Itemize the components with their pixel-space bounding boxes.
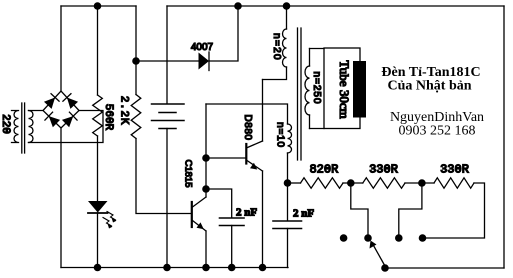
- resistor 330R second: [434, 178, 474, 188]
- node junction top rail left: [94, 2, 102, 10]
- transformer T1 secondary winding: [29, 111, 34, 143]
- node junction diode anode: [132, 57, 140, 65]
- LED arrows: [103, 212, 117, 229]
- resistor 560R: [93, 95, 103, 136]
- battery B1: [152, 103, 185, 105]
- node switch contact 2: [364, 234, 372, 242]
- resistor 330R first: [363, 178, 405, 188]
- node junction base D880: [202, 154, 210, 162]
- capacitor C2 2nF: [273, 220, 302, 222]
- svg-text:C1815: C1815: [183, 160, 194, 188]
- transformer T2 core: [297, 28, 299, 160]
- wire 820R to junction B: [343, 182, 363, 184]
- svg-text:2 nF: 2 nF: [236, 206, 257, 218]
- wire 4007 anode: [136, 60, 199, 62]
- node ground LED: [94, 264, 102, 272]
- svg-text:Tube 30cm: Tube 30cm: [337, 60, 352, 118]
- wire right edge vertical: [503, 6, 505, 268]
- wire LED to ground rail: [97, 213, 99, 268]
- wire top-right rail: [167, 5, 504, 7]
- wire n250 bottom to tube box: [310, 128, 325, 130]
- transformer T1 primary winding: [12, 111, 19, 143]
- diode bridge D-topright: [63, 94, 78, 109]
- wire 4007 cathode up to rail: [209, 6, 238, 61]
- diode bridge D-bottomright: [62, 112, 77, 127]
- wire bridge bottom to ground rail: [60, 128, 62, 268]
- wire secondary bottom to bridge right: [29, 111, 104, 143]
- wire C1815 collector to n=10: [206, 104, 288, 124]
- wire cap C2 to ground rail: [287, 229, 289, 268]
- transformer T1 core: [21, 103, 23, 153]
- tube box: [324, 48, 360, 129]
- svg-text:220: 220: [0, 114, 11, 134]
- svg-text:330R: 330R: [440, 163, 469, 177]
- wire 560R top feed: [97, 6, 99, 95]
- wire D880 collector up: [262, 80, 264, 142]
- wire 560R to LED: [97, 136, 99, 201]
- wire 330R right end down to contact 4: [423, 183, 485, 238]
- svg-text:Của Nhật bản: Của Nhật bản: [387, 79, 471, 94]
- wire C1815 collector up: [205, 104, 207, 197]
- node junction C: [418, 179, 426, 187]
- node switch contact 3: [395, 234, 403, 242]
- inductor L2 n=10 feedback winding: [288, 124, 292, 153]
- diode bridge D-bottomleft: [45, 112, 60, 127]
- tube black bar: [353, 61, 366, 118]
- svg-text:820R: 820R: [309, 163, 338, 177]
- wire to cap C1: [206, 189, 232, 218]
- switch SW1 arm arrow: [374, 246, 386, 267]
- node switch contact 4: [419, 234, 427, 242]
- transistor Q1 C1815: [191, 202, 193, 227]
- wire cap C1 to ground: [231, 226, 233, 268]
- node ground C1815 emitter: [202, 264, 210, 272]
- resistor 820R: [301, 178, 344, 188]
- diode bridge D-topleft: [44, 94, 59, 109]
- wire switch pole to right edge: [385, 267, 504, 269]
- svg-text:n=20: n=20: [271, 33, 282, 61]
- wire tap junction B to contact 2: [351, 183, 368, 238]
- node junction B: [347, 179, 355, 187]
- wire to D880 base: [206, 157, 246, 159]
- wire secondary top to bridge left: [29, 110, 44, 112]
- transistor Q2 D880: [245, 144, 247, 164]
- wire node A to 820R: [288, 182, 301, 184]
- svg-text:D880: D880: [242, 115, 253, 141]
- transformer T2 secondary n=250: [309, 49, 311, 67]
- node junction cap C1: [202, 185, 210, 193]
- wire 2.2K top feed: [135, 6, 137, 95]
- switch SW1 pole: [381, 264, 389, 272]
- svg-text:0903 252 168: 0903 252 168: [399, 124, 476, 139]
- node switch contact 1: [340, 234, 348, 242]
- wire n250 top to tube box: [310, 48, 325, 50]
- node junction transformer primary rail: [283, 2, 291, 10]
- svg-text:4007: 4007: [191, 42, 214, 53]
- capacitor C1 2nF: [220, 217, 245, 219]
- svg-text:n=250: n=250: [311, 71, 322, 104]
- svg-text:560R: 560R: [102, 104, 114, 131]
- wire 2.2K to base C1815: [136, 139, 192, 214]
- LED D2: [88, 201, 108, 213]
- inductor L1 n=20 primary winding: [286, 6, 288, 29]
- svg-text:2.2K: 2.2K: [118, 96, 130, 126]
- wire left vertical to bridge top: [60, 6, 62, 91]
- diode bridge frame: [43, 91, 79, 128]
- svg-text:2 nF: 2 nF: [293, 208, 314, 220]
- wire n20 bottom to D880 collector: [263, 67, 287, 80]
- wire battery to ground rail: [166, 129, 168, 268]
- svg-text:n=10: n=10: [274, 122, 285, 148]
- node ground battery: [163, 264, 171, 272]
- wire tap junction C to contact 3: [399, 183, 422, 238]
- wire C1815 emitter to ground: [205, 231, 207, 268]
- wire n10 to node A: [287, 153, 289, 221]
- wire top-left rail: [61, 5, 136, 7]
- wire D880 emitter to ground: [262, 171, 264, 268]
- node ground cap C1: [228, 264, 236, 272]
- node junction 4007 cathode rail: [234, 2, 242, 10]
- resistor 2.2K: [131, 95, 141, 139]
- svg-text:330R: 330R: [369, 163, 398, 177]
- wire battery top feed: [166, 6, 168, 104]
- diode 4007: [199, 53, 210, 70]
- node ground D880 emitter: [259, 264, 267, 272]
- wire 330R to junction C: [405, 182, 434, 184]
- node junction A: [284, 179, 292, 187]
- wire ground rail: [61, 267, 288, 269]
